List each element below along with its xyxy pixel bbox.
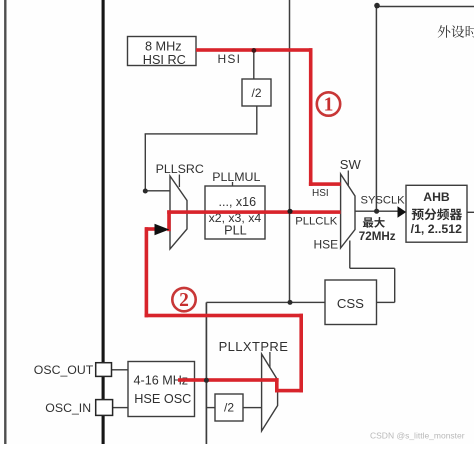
svg-text:/2: /2 — [251, 86, 261, 100]
svg-text:HSI: HSI — [218, 52, 242, 66]
svg-text:..., x16: ..., x16 — [219, 195, 257, 209]
svg-text:SYSCLK: SYSCLK — [361, 195, 406, 207]
svg-text:HSE: HSE — [314, 238, 339, 252]
svg-text:1: 1 — [324, 95, 334, 116]
svg-text:/1, 2..512: /1, 2..512 — [411, 222, 462, 236]
svg-text:CSDN @s_little_monster: CSDN @s_little_monster — [370, 431, 465, 441]
svg-text:SW: SW — [340, 157, 362, 172]
svg-text:AHB: AHB — [423, 190, 450, 204]
svg-text:HSI RC: HSI RC — [143, 53, 186, 67]
svg-text:HSI: HSI — [312, 188, 329, 199]
svg-text:8 MHz: 8 MHz — [145, 40, 182, 54]
svg-text:OSC_IN: OSC_IN — [45, 401, 91, 415]
svg-text:72MHz: 72MHz — [359, 230, 396, 243]
svg-text:HSE OSC: HSE OSC — [134, 392, 191, 406]
svg-text:PLLMUL: PLLMUL — [212, 170, 260, 184]
svg-text:/2: /2 — [224, 401, 234, 415]
svg-text:PLLXTPRE: PLLXTPRE — [219, 339, 289, 354]
svg-text:2: 2 — [179, 290, 189, 311]
svg-text:OSC_OUT: OSC_OUT — [34, 363, 94, 377]
svg-text:CSS: CSS — [337, 296, 364, 311]
svg-text:PLL: PLL — [224, 224, 247, 238]
svg-text:PLLCLK: PLLCLK — [295, 215, 338, 227]
svg-text:PLLSRC: PLLSRC — [156, 162, 204, 176]
